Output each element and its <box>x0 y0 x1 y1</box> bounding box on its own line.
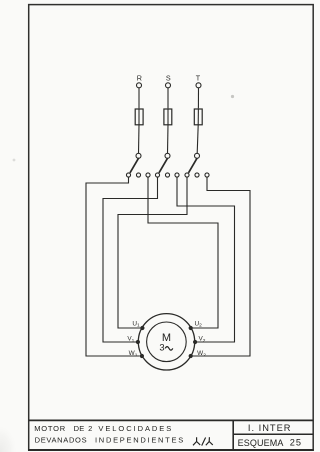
svg-text:3: 3 <box>159 341 164 352</box>
switch pole T pivot <box>195 153 200 158</box>
motor terminal U2 <box>189 326 193 330</box>
svg-text:ESQUEMA: ESQUEMA <box>238 438 284 448</box>
wire S right contact to motor V2 <box>177 177 235 342</box>
svg-text:25: 25 <box>290 437 302 447</box>
svg-text:DEVANADOSINDEPENDIENTES: DEVANADOSINDEPENDIENTES <box>35 436 185 445</box>
switch pole S pivot <box>165 153 170 158</box>
wire R left contact to motor W1 <box>86 177 140 356</box>
motor M outer circle <box>138 314 194 370</box>
switch pole T contact middle <box>195 173 199 177</box>
wire T terminal to fuse <box>197 88 199 108</box>
wire fuse T to switch pivot <box>197 125 198 153</box>
wire fuse R to switch pivot <box>138 125 141 153</box>
motor terminal W2 <box>189 354 193 358</box>
switch pole S contact right <box>175 173 179 177</box>
svg-text:I. INTER: I. INTER <box>248 423 292 433</box>
switch pole R blade <box>130 158 139 173</box>
wire S left contact to motor V1 <box>103 177 158 342</box>
motor terminal U1 <box>140 326 144 330</box>
svg-text:T: T <box>196 73 201 82</box>
switch pole S contact middle <box>165 173 169 177</box>
title block top line <box>29 419 314 421</box>
wire T right contact to motor W2 <box>192 177 250 356</box>
winding symbol star 1 <box>193 437 200 445</box>
fuse phase S <box>164 109 172 125</box>
motor M inner circle <box>147 322 187 362</box>
fuse phase R <box>135 109 143 125</box>
switch pole S contact left <box>155 173 159 177</box>
svg-text:S: S <box>166 73 171 82</box>
svg-text:R: R <box>137 73 142 82</box>
winding symbol star 2 <box>206 437 213 445</box>
title block mid line right cell <box>233 433 313 435</box>
terminal T <box>196 83 201 88</box>
switch pole R contact left <box>126 173 130 177</box>
switch pole T blade <box>189 158 198 173</box>
wire S terminal to fuse <box>167 88 169 108</box>
switch pole R contact middle <box>136 173 140 177</box>
switch pole R contact right <box>146 173 150 177</box>
terminal R <box>137 83 142 88</box>
fuse phase T <box>194 109 202 125</box>
slash between winding symbols <box>202 438 206 446</box>
wire T left contact to motor U1 <box>118 177 187 328</box>
motor terminal V1 <box>136 340 140 344</box>
wire R terminal to fuse <box>138 88 140 108</box>
svg-text:MOTORDE2VELOCIDADES: MOTORDE2VELOCIDADES <box>34 424 173 433</box>
switch pole T contact right <box>205 173 209 177</box>
switch pole T contact left <box>185 173 189 177</box>
wire fuse S to switch pivot <box>167 125 170 153</box>
title block divider <box>232 420 234 449</box>
motor terminal V2 <box>193 340 197 344</box>
motor terminal W1 <box>140 354 144 358</box>
terminal S <box>166 83 171 88</box>
switch pole S blade <box>159 158 168 173</box>
wire R right contact to motor U2 <box>148 177 218 328</box>
switch pole R pivot <box>136 153 141 158</box>
